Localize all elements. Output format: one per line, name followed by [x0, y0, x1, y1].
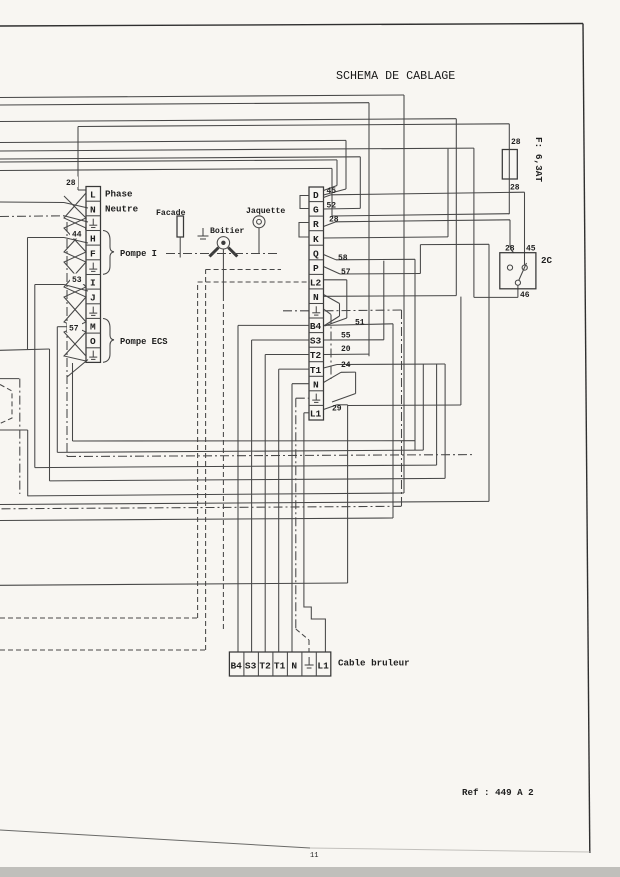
connector top — [0, 378, 19, 380]
wire crossing zigzag left of strip — [64, 193, 86, 361]
wire 57 horizontal — [340, 273, 420, 276]
svg-text:Pompe I: Pompe I — [120, 249, 157, 259]
svg-text:11: 11 — [310, 852, 318, 860]
svg-text:J: J — [90, 292, 96, 303]
wire 44 riser — [27, 238, 29, 350]
wire 51 return — [0, 518, 393, 521]
svg-text:K: K — [313, 234, 319, 245]
scanner edge band — [0, 867, 620, 877]
wire 29 stub — [337, 404, 348, 406]
dashed cable A riser — [197, 282, 199, 618]
wire fuse feed — [508, 124, 510, 150]
wire 58 link riser — [422, 364, 424, 450]
wire 55 return — [35, 465, 437, 468]
wire N jumper drop — [339, 304, 341, 317]
svg-text:T1: T1 — [310, 365, 322, 376]
tab connector D-G — [300, 196, 309, 209]
terminal strip X2 (middle) — [309, 187, 324, 420]
svg-text:20: 20 — [341, 345, 351, 354]
facade stem — [179, 237, 181, 258]
earth bus riser — [66, 222, 68, 457]
svg-text:58: 58 — [338, 254, 348, 263]
wire 45b diag into D — [324, 189, 347, 195]
wire 45 drop to 2C — [524, 192, 526, 265]
svg-text:Neutre: Neutre — [105, 204, 139, 215]
wire R upper to fuse — [332, 214, 509, 216]
svg-text:L1: L1 — [317, 661, 329, 672]
earth link to strip — [324, 309, 402, 312]
wire 28 riser at L — [77, 127, 79, 191]
svg-text:Jaquette: Jaquette — [246, 207, 285, 216]
svg-text:B4: B4 — [230, 661, 242, 672]
wire N8 riser — [455, 119, 457, 296]
svg-text:52: 52 — [327, 202, 337, 211]
svg-text:T2: T2 — [310, 350, 322, 361]
wire 57 riser up — [419, 245, 421, 274]
svg-text:Phase: Phase — [105, 189, 133, 200]
svg-text:51: 51 — [355, 319, 365, 328]
jaquette stem — [258, 228, 260, 254]
wire 51 horizontal — [324, 324, 394, 326]
wire N14 drop — [355, 372, 357, 393]
wire S3 to connector drop — [251, 340, 253, 652]
wire 44 diag into H — [64, 238, 88, 244]
wire 24 riser — [444, 364, 446, 478]
svg-text:N: N — [313, 292, 319, 303]
connector at left edge — [0, 385, 12, 424]
wire earth jog drop — [308, 640, 310, 652]
contact 46 — [515, 280, 520, 285]
svg-text:N: N — [313, 379, 319, 390]
wire loop A right — [403, 95, 405, 493]
wire 51 riser — [392, 324, 394, 518]
wire 58 right riser — [414, 259, 416, 450]
wire L2 jumper top — [324, 279, 347, 281]
wire N14 link — [341, 371, 356, 373]
dashed cable B bottom — [0, 649, 206, 651]
svg-text:F: F — [90, 248, 96, 259]
svg-text:46: 46 — [520, 291, 530, 300]
wire 24 diag at T1 — [324, 365, 338, 369]
fuse internal wire — [508, 150, 510, 180]
svg-text:P: P — [313, 263, 319, 274]
boitier stem — [222, 249, 224, 296]
svg-text:28: 28 — [66, 179, 76, 188]
svg-text:O: O — [90, 336, 96, 347]
svg-text:R: R — [313, 219, 319, 230]
svg-text:57: 57 — [69, 325, 79, 334]
wire 57 left riser — [56, 327, 58, 453]
wire B4 to connector top — [238, 324, 309, 326]
dashed cable A bottom — [0, 617, 198, 619]
contact 28 — [507, 265, 512, 270]
svg-text:24: 24 — [341, 361, 351, 370]
wire 55 link riser — [436, 364, 438, 465]
wire L2 jumper diag — [325, 318, 347, 326]
wire 52 stub — [324, 207, 361, 210]
wire 45 long riser — [488, 244, 490, 501]
svg-text:B4: B4 — [310, 321, 322, 332]
dashed cable B top — [206, 269, 281, 271]
wire 45 D to 2C — [331, 192, 525, 195]
wire L1 steps — [304, 413, 326, 652]
wire K riser — [447, 149, 449, 237]
svg-text:T2: T2 — [259, 661, 271, 672]
wire N8 horizontal — [324, 295, 457, 298]
svg-text:L: L — [90, 190, 96, 201]
svg-text:G: G — [313, 205, 319, 216]
svg-text:57: 57 — [341, 268, 351, 277]
wire Neutre diag into N — [64, 203, 88, 209]
earth bus bottom — [67, 455, 474, 457]
connector X3 Cable bruleur — [229, 652, 330, 676]
svg-text:SCHEMA DE CABLAGE: SCHEMA DE CABLAGE — [336, 69, 455, 83]
svg-text:53: 53 — [72, 276, 82, 285]
wire 28 to 2C — [336, 220, 510, 222]
small earth symbol — [198, 228, 209, 239]
svg-text:L1: L1 — [310, 408, 322, 419]
wire 46 top — [0, 148, 474, 151]
wire 24 horizontal — [337, 363, 445, 366]
earth long return — [0, 506, 402, 509]
connector bottom riser — [27, 430, 29, 496]
svg-text:28: 28 — [329, 216, 339, 225]
wire S3 to connector top — [252, 339, 309, 341]
border top — [0, 24, 583, 27]
wire loop A top — [0, 95, 404, 98]
brace Pompe ECS — [103, 319, 114, 363]
svg-text:M: M — [90, 322, 96, 333]
wire link to L1 riser — [348, 404, 461, 407]
wire L1 to connector top — [304, 412, 309, 414]
wire R upper riser — [331, 168, 333, 216]
wire 45a top — [0, 160, 337, 162]
earth wire left — [0, 215, 64, 218]
wire 29 return — [0, 583, 348, 585]
earth stub left of strip — [283, 310, 309, 312]
wire N to connector top — [292, 383, 309, 385]
dashed cable A top — [198, 281, 310, 283]
wire link riser up — [460, 297, 462, 405]
wire 46 stub to contact — [517, 286, 519, 298]
earth diag below strip — [67, 360, 88, 378]
wire 44 left riser — [49, 349, 51, 481]
wire 57 diag at P — [324, 267, 341, 275]
wire 53 diag into I — [64, 285, 88, 292]
wire R upper top — [0, 168, 332, 170]
wire 44 stub — [28, 237, 65, 239]
wire N14 diag to earth15 — [332, 394, 356, 403]
earth diag into cell — [64, 216, 88, 222]
svg-text:S3: S3 — [310, 336, 322, 347]
wire L2 jumper right — [346, 280, 348, 318]
switch 2C box — [500, 253, 536, 289]
svg-text:D: D — [313, 190, 319, 201]
wire 58 return bottom — [57, 450, 423, 452]
wire 58 diag at Q — [324, 255, 337, 260]
svg-text:28: 28 — [510, 184, 520, 193]
wire 52 riser — [359, 157, 361, 209]
svg-text:S3: S3 — [245, 661, 257, 672]
wire earth to connector drop — [295, 398, 297, 629]
wire 45 return bottom — [0, 501, 489, 504]
fuse lower wire — [508, 179, 510, 214]
border right — [583, 24, 590, 854]
wire O return — [73, 440, 416, 442]
svg-text:I: I — [90, 278, 96, 289]
switch lever — [519, 263, 527, 281]
wire 55 horizontal — [324, 339, 384, 341]
wire 24 return — [50, 478, 446, 481]
svg-text:Q: Q — [313, 248, 319, 259]
baseline dash-dot — [166, 253, 280, 255]
wire K stub — [324, 237, 449, 238]
wire earth to connector top — [296, 397, 309, 399]
wire 46 right riser — [473, 148, 475, 297]
wire 45b riser — [345, 140, 347, 189]
svg-text:44: 44 — [72, 231, 82, 240]
wire N jumper diag1 — [324, 295, 340, 304]
svg-text:N: N — [291, 661, 297, 672]
connector dashed right — [19, 379, 21, 494]
boitier dashed drop — [222, 296, 224, 630]
dashed cable B riser — [205, 270, 207, 651]
wire T2 to connector drop — [264, 355, 266, 653]
svg-text:2C: 2C — [541, 255, 553, 266]
wire 45a diag into D — [324, 186, 338, 191]
earth drop — [401, 310, 403, 506]
wire N8 loop top — [0, 119, 456, 122]
wire L entry — [78, 189, 86, 191]
svg-text:N: N — [90, 204, 96, 215]
wire 53 stub — [35, 284, 64, 286]
svg-text:F: 6,3AT: F: 6,3AT — [533, 137, 544, 182]
wire T1 to connector drop — [278, 369, 280, 652]
wire 45a riser — [336, 160, 338, 186]
wire B4 to connector drop — [237, 325, 239, 652]
wire earth jog — [296, 629, 309, 640]
wire 57 stub into M — [57, 326, 70, 328]
wire 28 bend into 2C — [510, 246, 514, 253]
brace Pompe I — [103, 231, 114, 275]
wire T2 upper loop top — [0, 103, 369, 105]
wire O riser — [72, 363, 74, 441]
wire 45 link — [420, 243, 489, 245]
facade terminal — [177, 216, 184, 237]
wire 58 horizontal — [336, 258, 415, 261]
wire loop A bottom — [28, 493, 404, 496]
wire 45 diag at D — [324, 195, 332, 198]
svg-text:29: 29 — [332, 405, 342, 414]
contact 45 — [522, 265, 527, 270]
svg-text:T1: T1 — [274, 661, 286, 672]
wire 28 drop at 2C — [509, 220, 511, 246]
wire 44 bus — [0, 349, 50, 350]
border bottom — [0, 830, 310, 848]
wire 52 top — [0, 157, 360, 159]
svg-text:H: H — [90, 234, 96, 245]
wire Neutre — [0, 201, 64, 204]
connector bottom — [0, 429, 28, 431]
wire 29 riser — [347, 405, 349, 583]
tab connector R-K — [299, 223, 309, 238]
wire N to connector drop — [291, 384, 293, 652]
wire earth jumper diag — [324, 309, 332, 315]
wire N jumper diag2 — [325, 316, 340, 326]
jaquette ring terminal — [253, 216, 265, 228]
wire N14 diag up — [324, 372, 342, 382]
wire 45b top — [0, 140, 346, 142]
wire 46 bottom — [474, 296, 518, 298]
wire T2 stub — [324, 353, 370, 355]
svg-text:Cable bruleur: Cable bruleur — [338, 658, 410, 669]
wire T1 to connector top — [279, 368, 309, 370]
wire 53 left riser — [34, 285, 36, 468]
svg-text:Boitier: Boitier — [210, 226, 244, 236]
svg-text:L2: L2 — [310, 277, 322, 288]
fuse F 6.3AT — [502, 150, 517, 180]
svg-text:Ref : 449 A 2: Ref : 449 A 2 — [462, 787, 534, 798]
earth dashed beside strip — [330, 315, 332, 380]
svg-text:55: 55 — [341, 332, 351, 341]
wire 28 to fuse — [78, 124, 509, 127]
svg-text:28: 28 — [511, 138, 521, 147]
wire 28 diag at R — [324, 222, 337, 227]
terminal strip X1 (left) — [86, 187, 101, 363]
wire T2 upper loop right — [368, 103, 370, 357]
boitier chassis symbol — [217, 237, 229, 249]
wire 29 diag at L1 — [324, 405, 338, 410]
svg-text:Pompe ECS: Pompe ECS — [120, 337, 168, 347]
wire 55 riser — [383, 261, 385, 340]
wire T2 to connector top — [265, 354, 309, 356]
